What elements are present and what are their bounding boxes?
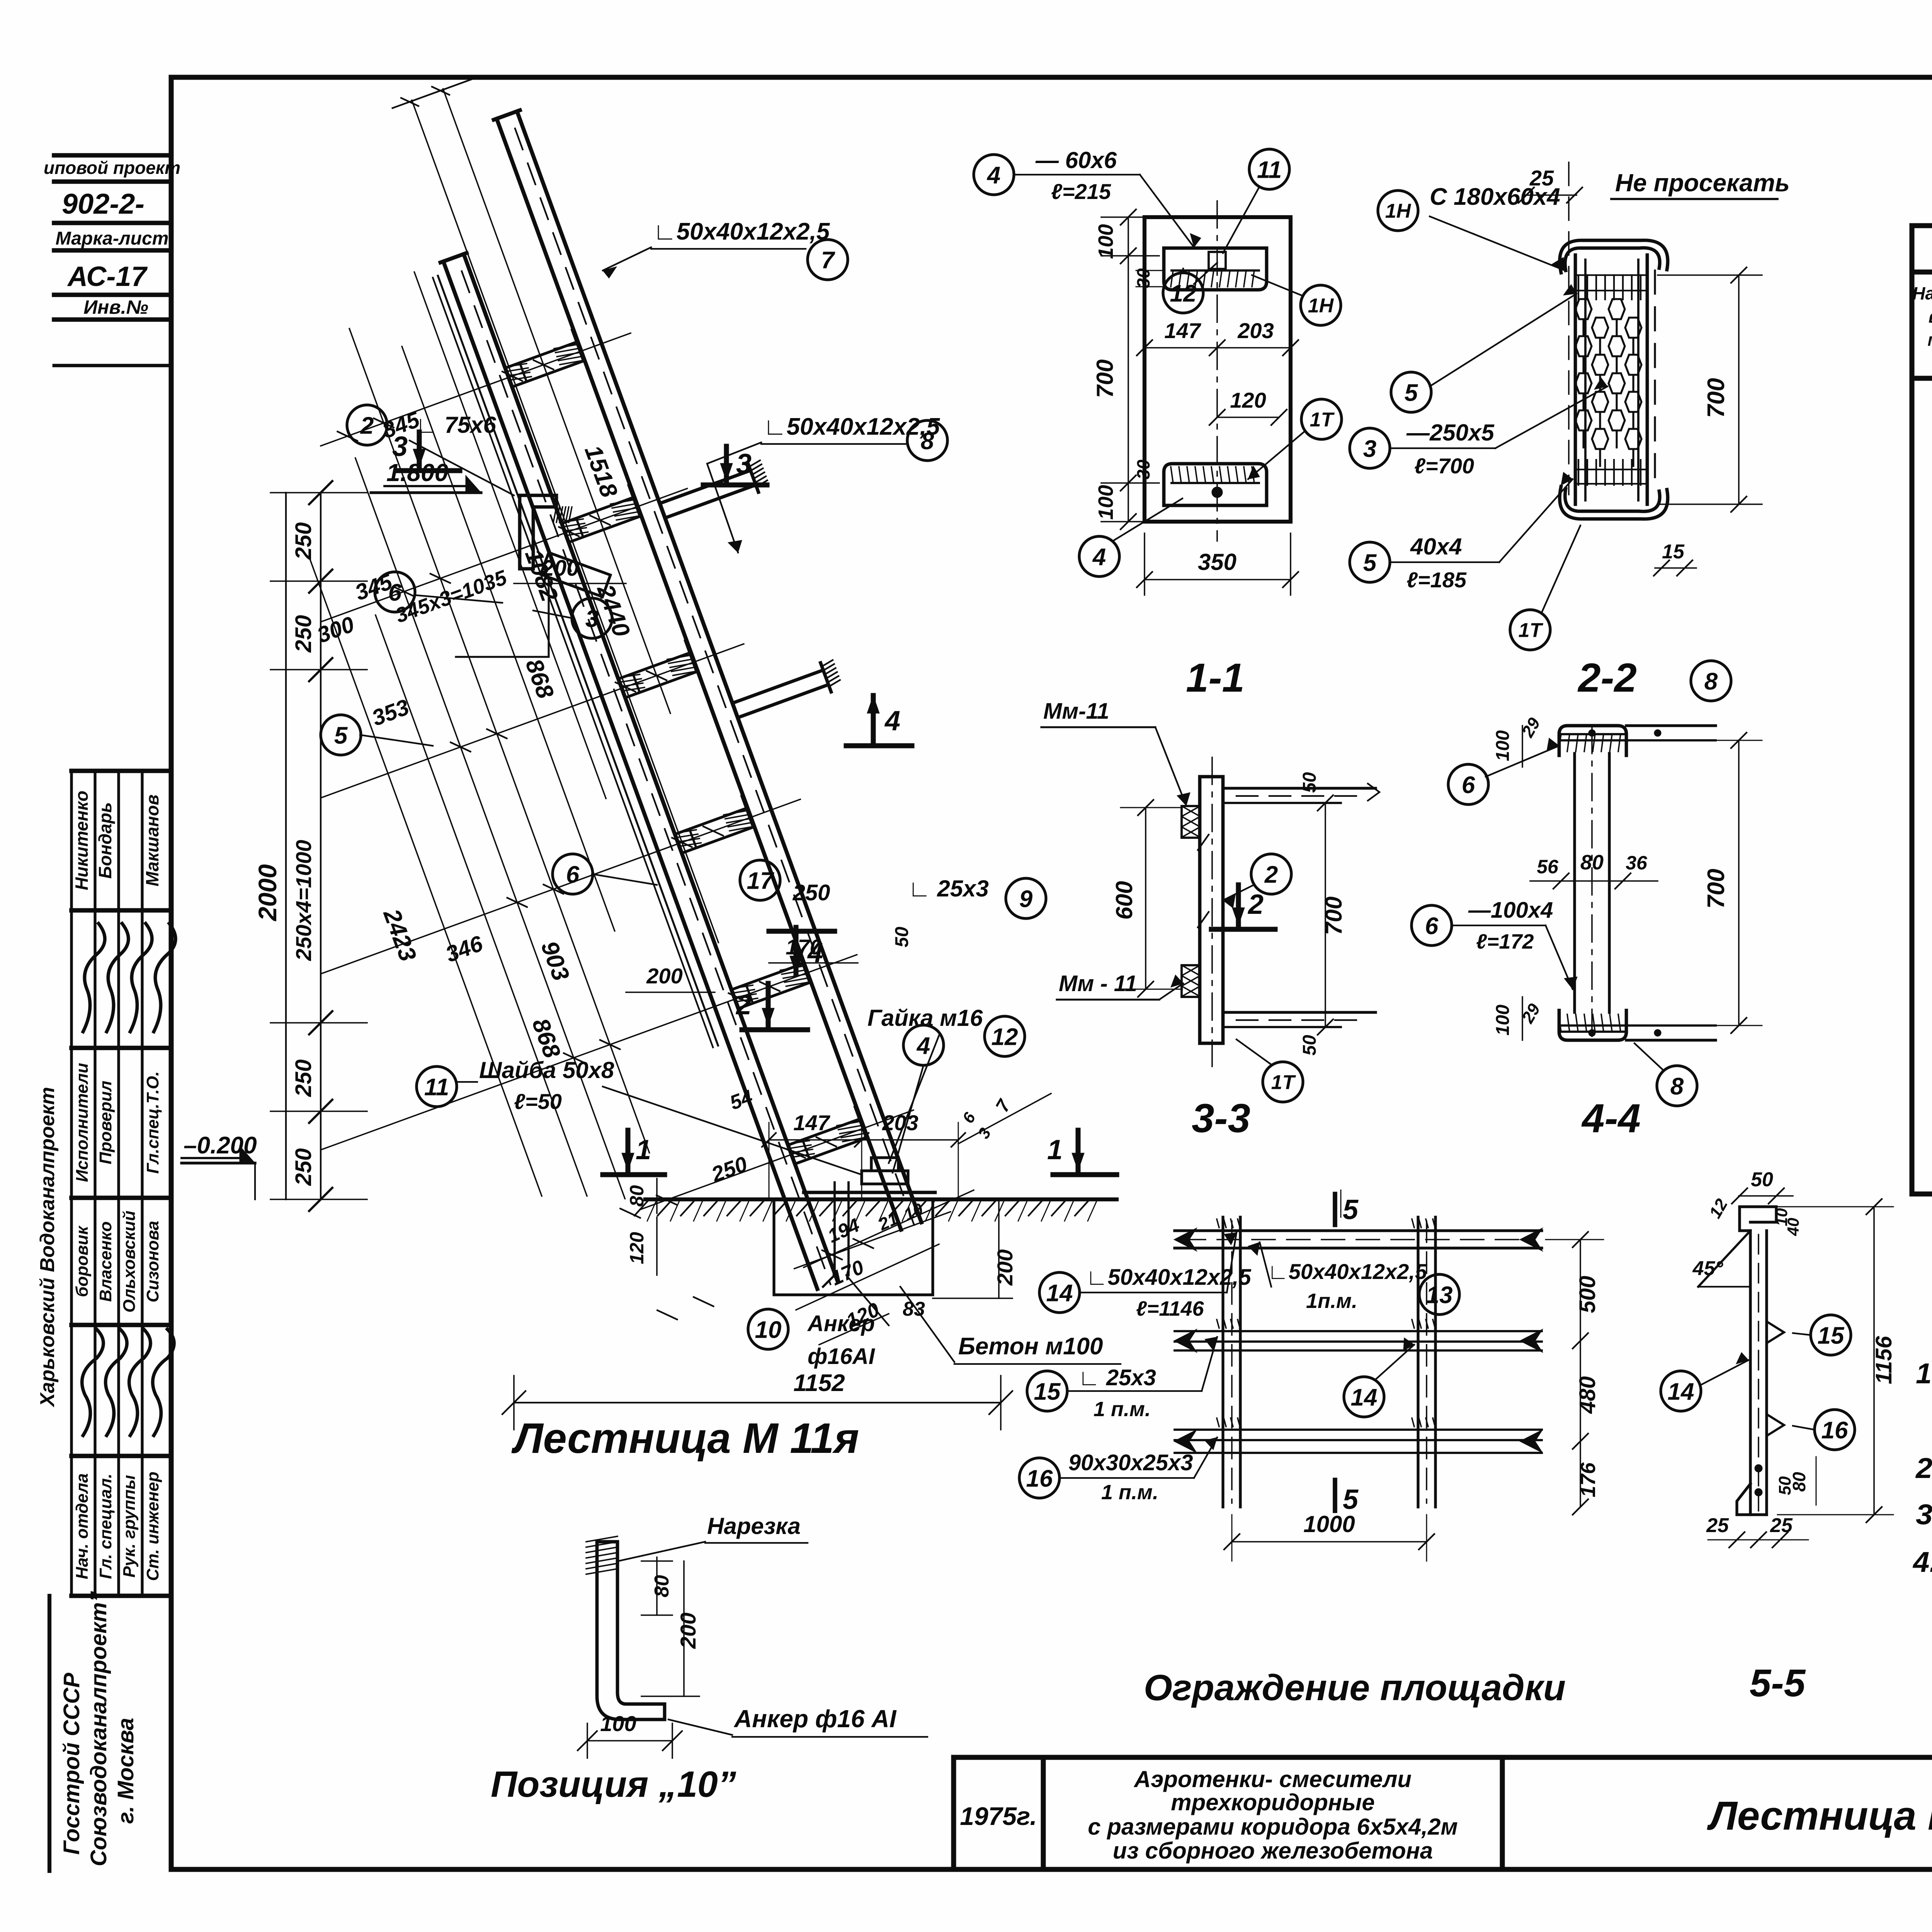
svg-text:14: 14: [1046, 1280, 1073, 1306]
callout circle 4 top with 60x6: [974, 155, 1014, 195]
svg-text:вание: вание: [1929, 306, 1932, 327]
section 5-5 bottom foot: [1737, 1484, 1767, 1515]
section 3-3 bottom flange lines: [1223, 1011, 1376, 1014]
svg-text:203: 203: [882, 1111, 918, 1135]
svg-text:3. Все сварные швы h = 4 мм: 3. Все сварные швы h = 4 мм.: [1916, 1498, 1932, 1531]
sidebar stamp block (project/list): [54, 153, 171, 158]
svg-text:Ольховский: Ольховский: [120, 1211, 139, 1313]
svg-text:8: 8: [921, 428, 934, 454]
svg-text:50: 50: [1299, 1035, 1320, 1056]
section 1-1 centerline: [1216, 201, 1218, 541]
svg-text:Рук. группы: Рук. группы: [120, 1475, 139, 1578]
svg-text:Никитенко: Никитенко: [71, 791, 92, 890]
svg-text:6: 6: [1462, 772, 1475, 798]
svg-text:14: 14: [1351, 1384, 1378, 1411]
svg-text:80: 80: [651, 1575, 673, 1597]
svg-text:ф16АI: ф16АI: [808, 1344, 876, 1369]
svg-text:600: 600: [1111, 881, 1137, 920]
svg-text:16: 16: [1821, 1417, 1848, 1444]
svg-text:3-3: 3-3: [1192, 1096, 1250, 1141]
sheet bottom edge: [171, 1867, 1932, 1872]
svg-text:Анкер ф16 АI: Анкер ф16 АI: [733, 1705, 897, 1733]
callout circle 15 left: [1027, 1371, 1067, 1411]
svg-text:13: 13: [1426, 1282, 1453, 1308]
svg-text:100: 100: [1493, 1005, 1513, 1036]
ground hatching: [634, 1199, 649, 1216]
svg-text:6: 6: [1425, 913, 1439, 939]
svg-text:иповой проект: иповой проект: [44, 158, 180, 178]
svg-text:80: 80: [1580, 851, 1604, 874]
svg-text:1Н: 1Н: [1385, 200, 1412, 223]
section 1-1 lower bolt dot: [1212, 487, 1223, 498]
section 3-3 weld plates Mm-11 bottom: [1182, 965, 1200, 997]
svg-text:868: 868: [520, 655, 559, 702]
svg-text:250: 250: [708, 1151, 750, 1187]
section 3-3 top flange lines: [1223, 787, 1376, 789]
dims 50 80 bottom 5-5: [1816, 1457, 1817, 1505]
svg-text:868: 868: [527, 1015, 565, 1061]
svg-text:1975г.: 1975г.: [960, 1802, 1037, 1830]
callout circle 1H section 1-1: [1301, 285, 1341, 325]
svg-text:1Т: 1Т: [1271, 1071, 1296, 1094]
svg-text:12: 12: [992, 1024, 1018, 1050]
svg-text:—250х5: —250х5: [1406, 420, 1495, 446]
svg-text:1Н: 1Н: [1308, 295, 1334, 317]
svg-text:4-4: 4-4: [1581, 1096, 1641, 1141]
callout circle 6 with 100x4: [1412, 905, 1452, 946]
svg-text:–0.200: –0.200: [184, 1132, 257, 1159]
svg-text:АС-17: АС-17: [67, 261, 148, 292]
top bracket leader lines: [456, 656, 549, 658]
section 2-2 top hatch band no-cut zone: [1578, 275, 1579, 299]
callout circle 1H section 2-2: [1378, 190, 1418, 231]
callout circle 5: [321, 715, 361, 755]
section 1-1 upper bolt: [1209, 252, 1226, 269]
svg-text:∟ 75х6: ∟ 75х6: [415, 412, 497, 438]
svg-text:56: 56: [1537, 856, 1559, 878]
svg-text:4. Сварку производить электр: 4. Сварку производить электродами: [1912, 1546, 1932, 1578]
svg-text:16: 16: [1026, 1465, 1053, 1492]
callout circle 3 with 250x5: [1350, 428, 1390, 468]
svg-text:30: 30: [1133, 459, 1153, 480]
svg-text:700: 700: [1321, 896, 1347, 935]
svg-text:350: 350: [1198, 549, 1236, 575]
svg-text:Инв.№: Инв.№: [83, 296, 148, 318]
svg-text:Власенко: Власенко: [96, 1221, 115, 1302]
svg-text:147: 147: [1164, 318, 1201, 343]
section 3-3 right dim 700: [1325, 803, 1326, 1027]
signatures scribbles: [83, 923, 105, 1032]
svg-text:Макшанов: Макшанов: [142, 794, 162, 886]
railing dim 480: [1580, 1341, 1581, 1441]
section 5-5 post: [1749, 1231, 1752, 1515]
dims 25 25 bottom 5-5: [1708, 1539, 1808, 1541]
section 4-4 top cap channel: [1559, 726, 1626, 755]
title block top line: [954, 1755, 1932, 1760]
svg-text:2: 2: [1247, 889, 1264, 920]
svg-text:250: 250: [793, 880, 830, 905]
svg-text:Проверил: Проверил: [96, 1081, 115, 1164]
handrail angle 25x3 pos 9: [438, 276, 718, 1046]
svg-text:15: 15: [1662, 541, 1685, 563]
svg-text:100: 100: [1094, 485, 1117, 520]
svg-text:ℓ=700: ℓ=700: [1414, 454, 1474, 478]
svg-text:80: 80: [626, 1185, 648, 1207]
svg-text:Не просекать: Не просекать: [1615, 169, 1790, 197]
section mark 3 right: [724, 446, 729, 481]
svg-text:г. Москва: г. Москва: [113, 1718, 138, 1824]
svg-text:50: 50: [1751, 1168, 1773, 1191]
svg-text:14: 14: [1668, 1378, 1694, 1405]
section mark 2 right: [1236, 885, 1241, 925]
svg-text:ℓ=50: ℓ=50: [514, 1089, 562, 1114]
svg-text:∟50х40х12х2,5: ∟50х40х12х2,5: [1267, 1259, 1427, 1284]
section mark 5 top: [1333, 1194, 1337, 1225]
svg-text:45°: 45°: [1692, 1257, 1724, 1280]
svg-text:ℓ=1146: ℓ=1146: [1136, 1297, 1204, 1320]
table header underline: [1912, 376, 1932, 381]
dim 1156 right 5-5: [1873, 1207, 1875, 1515]
ground line: [645, 1197, 1117, 1201]
svg-text:Сизонова: Сизонова: [143, 1221, 162, 1302]
railing dim 1000: [1232, 1541, 1427, 1543]
tick marks on fan lines: [534, 355, 553, 374]
svg-text:6: 6: [959, 1109, 979, 1126]
svg-text:1000: 1000: [1303, 1511, 1355, 1537]
svg-text:2: 2: [360, 412, 374, 439]
svg-text:147: 147: [793, 1111, 830, 1135]
railing middle rail pos 15: [1175, 1330, 1542, 1332]
section 3-3 left dim 600: [1145, 808, 1146, 989]
foundation pit outline: [774, 1199, 933, 1295]
svg-text:1-1: 1-1: [1186, 655, 1245, 701]
svg-text:250: 250: [291, 1060, 316, 1097]
anchor thread hatching Нарезка: [586, 1536, 617, 1542]
svg-text:100: 100: [600, 1711, 636, 1736]
sidebar signature table: [71, 769, 171, 773]
svg-text:из сборного железобетона: из сборного железобетона: [1113, 1838, 1433, 1864]
svg-text:500: 500: [1575, 1276, 1600, 1313]
svg-text:Лестница М 11я: Лестница М 11я: [511, 1415, 859, 1462]
svg-text:120: 120: [1230, 388, 1266, 412]
callout circle 8 below 2-2: [1691, 661, 1731, 701]
title block verticals: [951, 1757, 956, 1869]
section 2-2 channel left wall: [1574, 255, 1577, 504]
svg-text:250: 250: [291, 1148, 316, 1186]
section mark 1 left: [626, 1130, 631, 1171]
callout circle 4 foot: [903, 1025, 944, 1065]
svg-text:50: 50: [892, 927, 912, 947]
section 2-2 top curl: [1565, 248, 1660, 270]
section 4-4 top flange lines: [1626, 724, 1716, 727]
level mark 1.800: [371, 491, 481, 494]
svg-text:Нач. отдела: Нач. отдела: [73, 1473, 92, 1579]
svg-text:5: 5: [1343, 1484, 1359, 1515]
table title row line: [1912, 270, 1932, 275]
svg-text:∟50х40х12х2,5: ∟50х40х12х2,5: [1086, 1265, 1251, 1290]
svg-text:с размерами коридора 6х5х4,2м: с размерами коридора 6х5х4,2м: [1088, 1814, 1458, 1840]
svg-text:15: 15: [1818, 1322, 1845, 1349]
callout circle 8 bottom 4-4: [1657, 1066, 1697, 1106]
callout circle 10 anchor: [748, 1309, 788, 1349]
svg-text:50: 50: [1299, 772, 1320, 793]
railing dim 500: [1580, 1240, 1581, 1341]
svg-text:5: 5: [1363, 549, 1377, 576]
railing weld ticks: [1217, 1219, 1219, 1228]
stringer 7 lower (channel band): [464, 254, 838, 1281]
svg-text:Аэротенки- смесители: Аэротенки- смесители: [1133, 1766, 1412, 1792]
svg-text:50: 50: [1776, 1476, 1794, 1495]
svg-text:∟ 25х3: ∟ 25х3: [1078, 1365, 1156, 1390]
svg-text:4: 4: [1092, 544, 1106, 570]
railing post left: [1221, 1217, 1224, 1507]
section 2-2 expanded mesh pattern: [1575, 299, 1592, 319]
section 4-4 bottom flange lines: [1626, 1039, 1716, 1041]
svg-text:700: 700: [1703, 378, 1730, 418]
svg-text:3: 3: [585, 605, 599, 632]
svg-text:2000: 2000: [253, 864, 282, 922]
parallel dimension line 903: [355, 458, 625, 1199]
section 4-4 centerline: [1591, 726, 1593, 1043]
svg-text:9: 9: [1019, 886, 1033, 912]
svg-text:25: 25: [1706, 1514, 1729, 1537]
svg-text:Харьковский Водоканалпроект: Харьковский Водоканалпроект: [36, 1087, 59, 1408]
section mark 1 right: [1076, 1130, 1081, 1171]
svg-text:Ограждение площадки: Ограждение площадки: [1144, 1667, 1566, 1708]
specification table outer border: [1912, 226, 1932, 1194]
callout circle 1T section 1-1: [1301, 399, 1342, 439]
svg-text:200: 200: [993, 1249, 1017, 1286]
svg-text:6: 6: [566, 861, 580, 888]
svg-text:ℓ=215: ℓ=215: [1051, 179, 1111, 204]
callout circle 5 lower with 40x4: [1350, 542, 1390, 582]
svg-text:36: 36: [1626, 852, 1648, 874]
svg-text:200: 200: [676, 1612, 700, 1649]
parallel dimension line 1518: [443, 89, 670, 713]
anchor bolts in foundation: [833, 1182, 836, 1275]
chain ticks: [309, 481, 332, 504]
svg-text:40х4: 40х4: [1410, 534, 1462, 560]
svg-text:Позиция „10”: Позиция „10”: [491, 1764, 736, 1805]
vertical dimension line 2000: [285, 493, 287, 1199]
svg-text:∟ 25х3: ∟ 25х3: [908, 876, 989, 901]
parallel dimension line 868 upper: [402, 347, 615, 931]
dim 50 top 5-5: [1739, 1195, 1793, 1197]
svg-text:7: 7: [821, 247, 835, 274]
parallel dimension line 1082: [414, 272, 606, 799]
svg-text:1 п.м.: 1 п.м.: [1094, 1398, 1151, 1421]
callout circle 4 bottom: [1079, 536, 1119, 577]
svg-text:∟50х40х12х2,5: ∟50х40х12х2,5: [653, 218, 830, 245]
svg-text:Шайба 50х8: Шайба 50х8: [479, 1057, 614, 1083]
svg-text:250: 250: [291, 522, 316, 560]
callout circle 6 top 4-4: [1448, 764, 1488, 804]
section 4-4 bottom cap channel: [1559, 1010, 1626, 1040]
rung extension fan lines: [321, 333, 631, 446]
base washer plate: [804, 1191, 935, 1194]
svg-text:250х4=1000: 250х4=1000: [291, 840, 316, 961]
svg-text:170: 170: [828, 1256, 867, 1290]
top end extension line: [393, 79, 473, 108]
svg-text:—100х4: —100х4: [1468, 898, 1553, 923]
svg-text:100: 100: [1493, 730, 1513, 761]
section 2-2 bottom hatch band: [1578, 460, 1579, 485]
svg-text:346: 346: [442, 931, 486, 967]
ladder assembly (rotated): [0, 25, 1033, 1432]
svg-text:1156: 1156: [1871, 1336, 1896, 1384]
svg-text:100: 100: [1094, 224, 1117, 259]
parallel dimension line 2423: [349, 328, 649, 1153]
svg-text:17: 17: [747, 867, 774, 894]
parallel dimension line 868 lower: [376, 615, 587, 1196]
svg-text:2: 2: [735, 990, 752, 1020]
svg-text:Наимено-: Наимено-: [1912, 283, 1932, 303]
svg-text:700: 700: [1703, 869, 1730, 908]
parallel dimension line extra: [309, 557, 542, 1196]
svg-text:203: 203: [1237, 318, 1274, 343]
svg-text:трехкоридорные: трехкоридорные: [1171, 1789, 1375, 1815]
dim 700 right: [1738, 275, 1740, 504]
top support angle 75x6: [520, 495, 556, 569]
svg-text:15: 15: [1034, 1378, 1061, 1405]
svg-text:Гайка м16: Гайка м16: [867, 1005, 983, 1031]
svg-text:4: 4: [884, 706, 900, 736]
callout circle 11 washer: [417, 1066, 457, 1107]
callout circle 14 left: [1039, 1272, 1080, 1313]
callout circle 14 section 5-5: [1661, 1371, 1701, 1411]
svg-text:903: 903: [536, 938, 574, 985]
section 1-1 lower tread channel: [1164, 464, 1267, 505]
svg-text:Нарезка: Нарезка: [707, 1513, 801, 1539]
section mark 5 bottom: [1333, 1480, 1337, 1511]
section 1-1 left dim line: [1128, 217, 1129, 522]
svg-text:ℓ=185: ℓ=185: [1406, 568, 1467, 592]
callout circle 17: [740, 860, 780, 900]
section mark 2 down: [766, 983, 771, 1026]
svg-text:Анкер: Анкер: [807, 1311, 875, 1336]
svg-text:— 60х6: — 60х6: [1035, 147, 1117, 173]
svg-text:480: 480: [1575, 1376, 1600, 1414]
section 5-5 weld symbol upper with circle 15: [1767, 1321, 1784, 1343]
section mark 4 up: [871, 696, 876, 742]
svg-text:2: 2: [1264, 861, 1278, 888]
railing dim 176: [1580, 1441, 1581, 1507]
callout circle 1T section 3-3: [1263, 1062, 1303, 1102]
section 4-4 post body: [1573, 753, 1576, 1012]
svg-text:2423: 2423: [378, 905, 421, 965]
callout circle 16 left: [1019, 1458, 1060, 1498]
parallel dimension line 2440: [412, 100, 718, 942]
callout circle 6 middle: [553, 854, 593, 894]
section mark 4 down: [794, 927, 799, 974]
svg-text:1. Настоящий чертеж рассматр: 1. Настоящий чертеж рассматривать: [1916, 1357, 1932, 1389]
svg-text:3: 3: [1363, 435, 1376, 462]
svg-text:Бетон м100: Бетон м100: [958, 1333, 1103, 1360]
section 3-3 stringer web: [1200, 777, 1223, 1043]
callout circle 1T section 2-2: [1510, 610, 1550, 650]
section 5-5 weld symbol lower with circle 16: [1767, 1414, 1784, 1436]
svg-text:8: 8: [1704, 668, 1718, 695]
svg-text:Гл.спец.Т.О.: Гл.спец.Т.О.: [143, 1071, 162, 1173]
callout circle 11 top: [1249, 149, 1289, 189]
svg-text:1п.м.: 1п.м.: [1306, 1289, 1357, 1313]
svg-text:250: 250: [291, 615, 316, 653]
svg-text:2. Все дыры d= 15 мм.: 2. Все дыры d= 15 мм.: [1915, 1452, 1932, 1484]
svg-text:марки: марки: [1927, 330, 1932, 350]
svg-text:4: 4: [986, 162, 1000, 189]
svg-text:40: 40: [1784, 1218, 1802, 1236]
callout circle 2 section 3-3: [1251, 854, 1291, 894]
svg-text:1152: 1152: [793, 1370, 845, 1396]
callout circle 6 top: [375, 572, 415, 612]
stringer 7 upper (channel band): [517, 111, 922, 1222]
svg-text:1 п.м.: 1 п.м.: [1101, 1481, 1158, 1504]
svg-text:12: 12: [1170, 280, 1197, 307]
svg-text:Бондарь: Бондарь: [95, 802, 115, 879]
svg-text:боровик: боровик: [73, 1225, 92, 1297]
svg-text:С 180х60х4: С 180х60х4: [1430, 184, 1560, 210]
wall brackets pos 8: [660, 470, 750, 503]
svg-text:170: 170: [786, 935, 821, 959]
railing bottom rail pos 16: [1175, 1429, 1542, 1431]
ladder steps (6 treads): [505, 342, 578, 368]
section mark 3 left: [417, 432, 422, 467]
svg-text:Мм-11: Мм-11: [1043, 699, 1109, 724]
svg-text:Исполнители: Исполнители: [73, 1063, 92, 1182]
svg-text:176: 176: [1577, 1462, 1600, 1497]
section 3-3 break marks: [1198, 835, 1209, 927]
svg-text:5: 5: [334, 722, 348, 749]
section 5-5 top handrail angle: [1740, 1207, 1776, 1231]
svg-text:3: 3: [392, 431, 408, 462]
svg-text:Ст. инженер: Ст. инженер: [143, 1471, 162, 1581]
svg-text:Гл. специал.: Гл. специал.: [96, 1474, 115, 1579]
svg-text:11: 11: [424, 1074, 449, 1100]
svg-text:10: 10: [755, 1316, 782, 1343]
callout circle 12: [1163, 273, 1203, 313]
svg-text:90х30х25х3: 90х30х25х3: [1068, 1450, 1193, 1475]
svg-text:120: 120: [626, 1232, 648, 1264]
svg-text:1Т: 1Т: [1519, 619, 1544, 642]
dim 700 right 4-4: [1738, 740, 1740, 1026]
section 5-5 45deg strut: [1698, 1231, 1750, 1287]
section 1-1 stringer plate outline: [1145, 217, 1291, 522]
section 2-2 bottom curl: [1565, 489, 1660, 512]
svg-text:Марка-лист: Марка-лист: [56, 228, 169, 249]
svg-text:1: 1: [1047, 1134, 1063, 1165]
level mark -0.200: [182, 1162, 255, 1164]
railing top rail pos 13: [1175, 1229, 1542, 1232]
railing post right: [1417, 1217, 1419, 1507]
section 1-1 upper tread channel: [1164, 248, 1267, 290]
svg-text:7: 7: [992, 1095, 1015, 1116]
callout circle 3: [572, 598, 612, 638]
svg-text:1: 1: [636, 1134, 651, 1165]
svg-text:11: 11: [1257, 156, 1282, 183]
svg-text:Союзводоканалпроект”: Союзводоканалпроект”: [86, 1591, 111, 1866]
svg-text:200: 200: [541, 556, 579, 581]
vertical dimension chain line: [320, 493, 321, 1199]
svg-text:902-2-: 902-2-: [62, 188, 145, 220]
anchor detail pos 10 outline: [597, 1542, 665, 1719]
svg-text:5: 5: [1343, 1194, 1359, 1225]
svg-text:3: 3: [736, 449, 752, 480]
bottom stamp Госстрой СССР: [48, 1596, 51, 1871]
top landing step: [541, 553, 610, 597]
section 2-2 right dashed flange: [1654, 270, 1656, 491]
callout circle 5 upper: [1391, 372, 1431, 412]
section 3-3 weld plates Mm-11 top: [1182, 806, 1200, 838]
